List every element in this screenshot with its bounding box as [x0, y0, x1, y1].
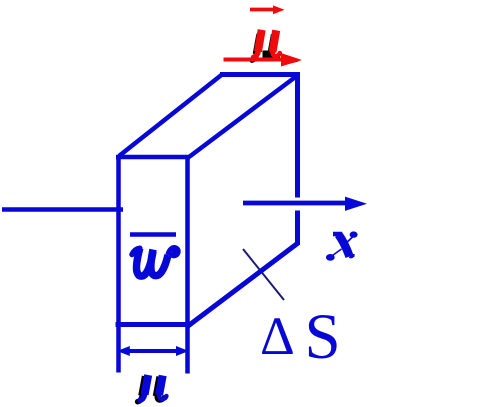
overbar of w [130, 232, 176, 237]
svg-text:S: S [305, 301, 341, 373]
box top-left diagonal edge [119, 75, 222, 157]
x axis arrow [243, 197, 367, 211]
box back-right vertical edge upper [295, 72, 300, 198]
box front face left edge with extension [116, 155, 121, 373]
velocity vector long arrow [224, 53, 303, 67]
box back top edge [220, 72, 299, 77]
label x [326, 231, 358, 260]
label u (red velocity) [254, 30, 280, 58]
box front face bottom edge [116, 322, 190, 327]
velocity vector small arrow over u [250, 5, 285, 14]
incoming horizontal line at left [2, 207, 123, 212]
box top-right diagonal edge [189, 75, 298, 157]
label u (thickness dimension) [140, 375, 166, 400]
label w (average velocity) [132, 248, 178, 276]
box front face right edge with extension [185, 155, 190, 374]
box bottom-right diagonal edge [188, 243, 298, 326]
black shadow under red u [252, 34, 278, 60]
svg-text:Δ: Δ [260, 306, 295, 366]
box back-right vertical edge lower [295, 211, 300, 246]
box front face top edge [116, 155, 190, 160]
dimension arrow double headed [117, 346, 189, 356]
thin cross tick across surface edge [243, 249, 284, 300]
black shadow of bottom u label [138, 376, 164, 401]
